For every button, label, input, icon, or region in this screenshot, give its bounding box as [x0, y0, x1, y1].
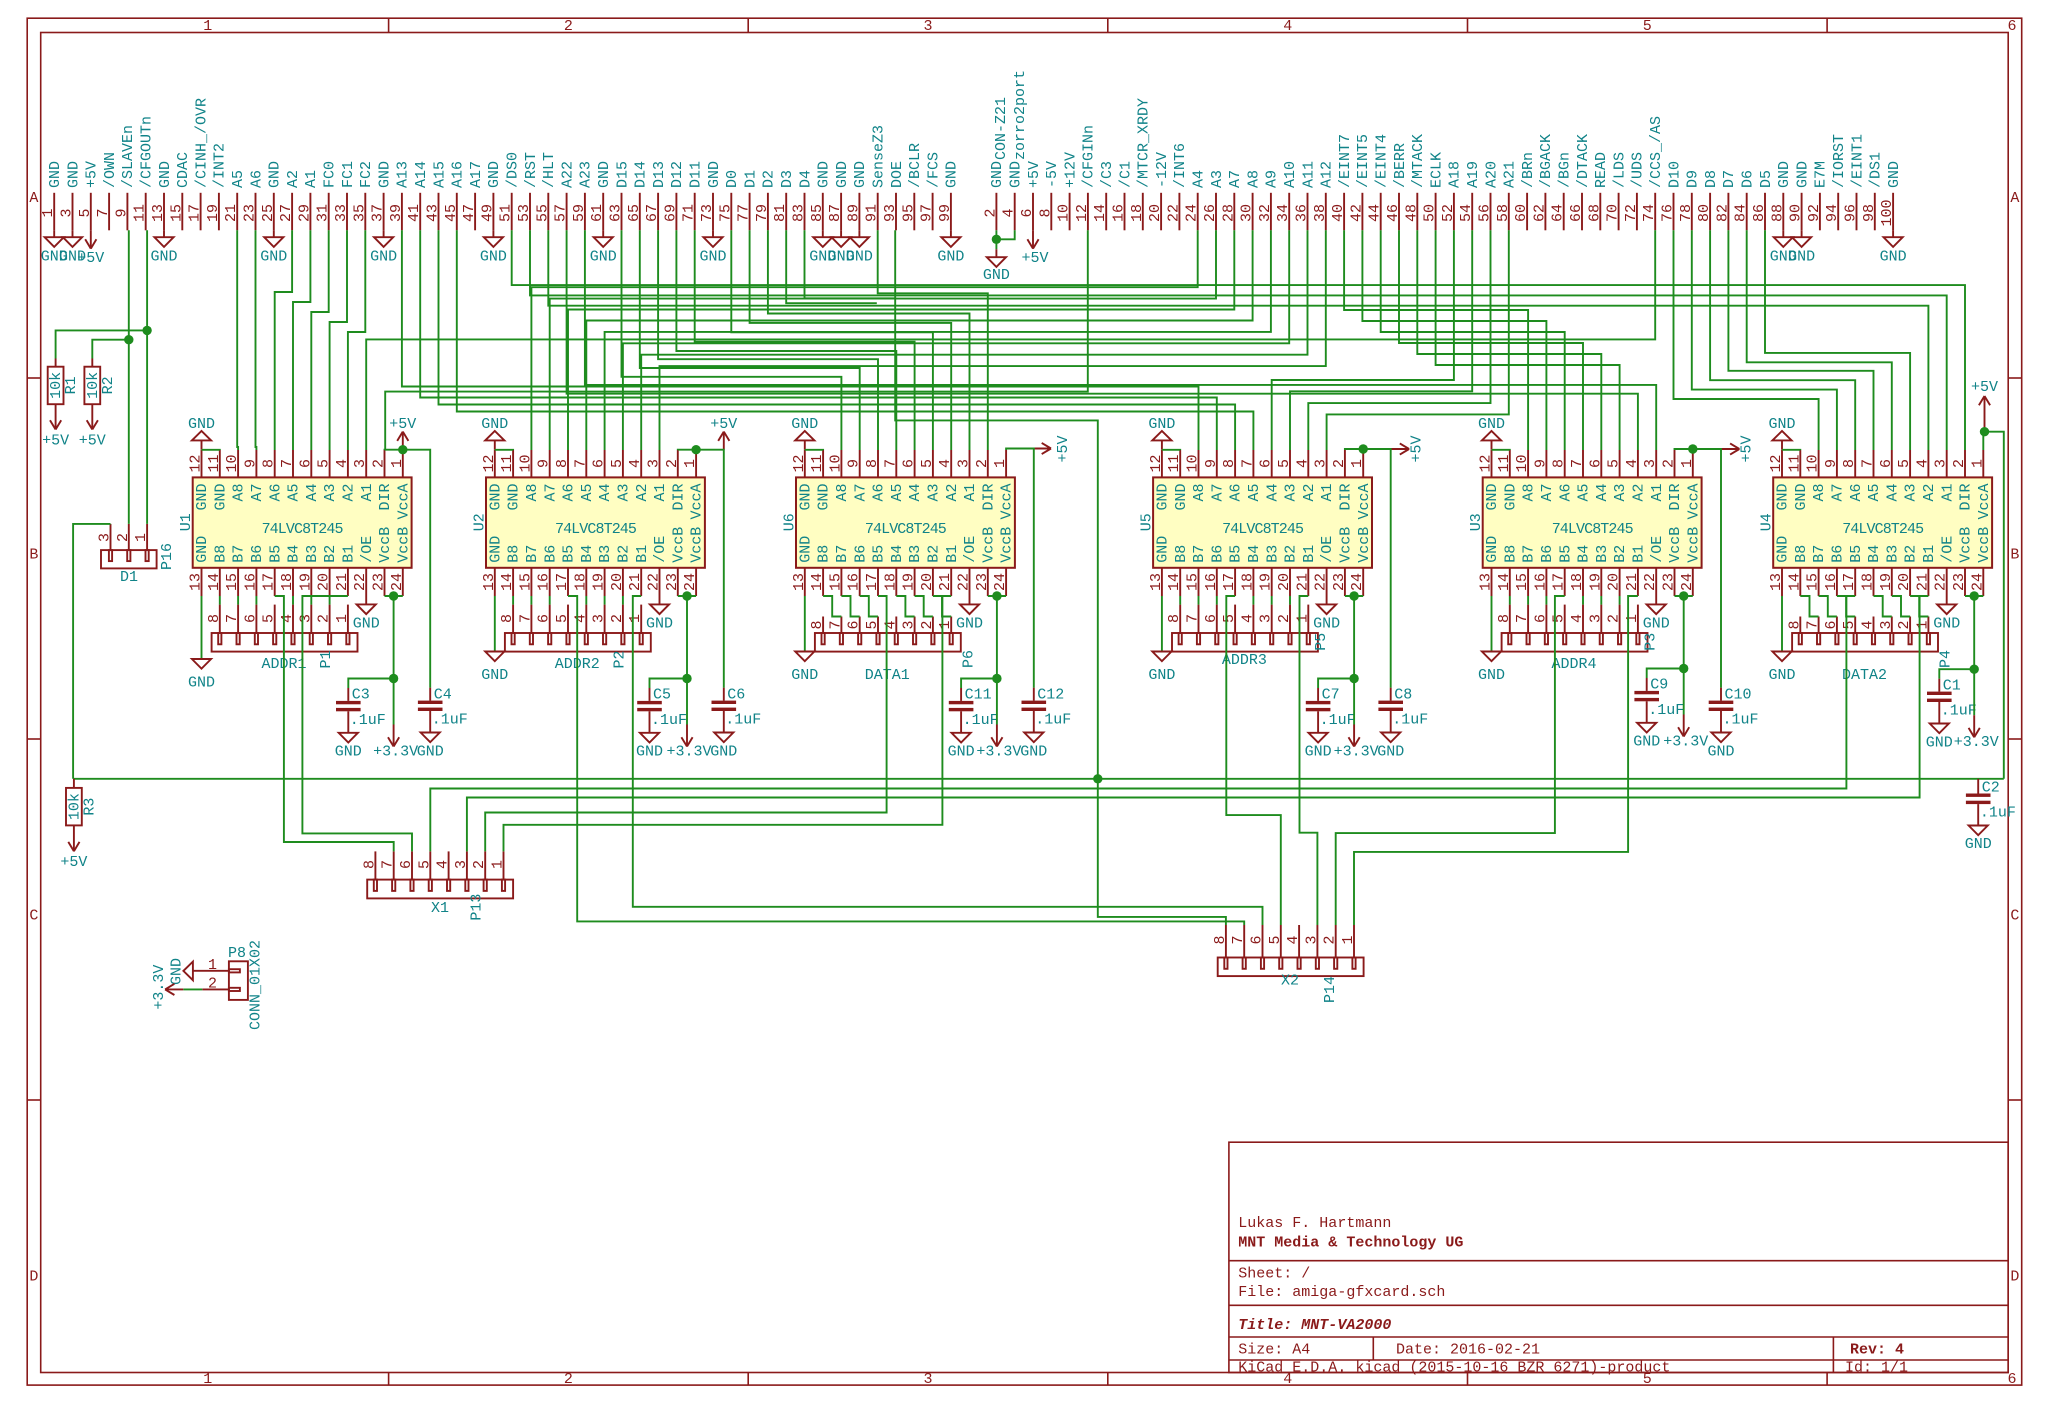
svg-text:GND: GND: [948, 744, 975, 761]
svg-text:23: 23: [1331, 573, 1348, 591]
svg-text:R3: R3: [81, 798, 98, 816]
svg-text:B: B: [29, 547, 38, 564]
svg-text:A5: A5: [286, 484, 303, 502]
svg-text:+5V: +5V: [1408, 435, 1425, 462]
svg-text:B8: B8: [1793, 545, 1810, 563]
svg-text:10: 10: [827, 454, 844, 472]
wire A9 pin32 to U2: [605, 230, 1271, 450]
wire D0 pin75 to U6: [731, 230, 933, 450]
IC U2 bottom pins 13-24 with numbers and names: [481, 527, 706, 596]
svg-text:23: 23: [664, 573, 681, 591]
svg-text:+5V: +5V: [1021, 250, 1048, 267]
svg-text:GND: GND: [188, 416, 215, 433]
svg-text:VccB: VccB: [1958, 527, 1975, 563]
svg-text:15: 15: [1805, 573, 1822, 591]
svg-text:A15: A15: [431, 161, 448, 188]
power +5V at U2: [710, 416, 737, 450]
IC U3 top pins 12-1 with numbers and names: [1478, 450, 1703, 520]
junction R1 net: [142, 326, 151, 335]
svg-text:11: 11: [206, 454, 223, 472]
svg-text:16: 16: [242, 573, 259, 591]
svg-text:42: 42: [1348, 204, 1365, 222]
svg-text:24: 24: [1969, 573, 1986, 591]
svg-text:D3: D3: [779, 170, 796, 188]
svg-text:GND: GND: [1965, 836, 1992, 853]
wire SenseZ3 pin91 to U6 DIR: [878, 230, 988, 450]
svg-text:A7: A7: [1209, 484, 1226, 502]
wire A21 pin58 to U5: [1327, 230, 1509, 450]
svg-text:23: 23: [371, 573, 388, 591]
svg-text:10: 10: [224, 454, 241, 472]
svg-text:A8: A8: [1521, 484, 1538, 502]
svg-text:24: 24: [992, 573, 1009, 591]
wire U5 VccB pins 23-24: [1345, 596, 1363, 679]
svg-text:P1: P1: [318, 650, 335, 668]
wire U6 pin12-pin11 GND: [805, 449, 823, 451]
svg-text:5: 5: [919, 459, 936, 468]
svg-text:74LVC8T245: 74LVC8T245: [1552, 521, 1634, 538]
svg-text:GND: GND: [1173, 484, 1190, 511]
svg-text:File: amiga-gfxcard.sch: File: amiga-gfxcard.sch: [1238, 1284, 1445, 1301]
svg-text:99: 99: [937, 204, 954, 222]
svg-text:B1: B1: [634, 545, 651, 563]
svg-text:/BERR: /BERR: [1392, 143, 1409, 188]
svg-text:3: 3: [1587, 614, 1604, 623]
svg-text:20: 20: [1606, 573, 1623, 591]
svg-text:FC1: FC1: [340, 161, 357, 188]
ground symbol at U5 pins 11-12: [1148, 416, 1175, 450]
svg-text:90: 90: [1788, 204, 1805, 222]
svg-text:+5V: +5V: [60, 854, 87, 871]
svg-text:6: 6: [846, 620, 863, 629]
svg-text:A23: A23: [578, 161, 595, 188]
svg-text:3: 3: [591, 614, 608, 623]
svg-text:C3: C3: [352, 687, 370, 704]
svg-text:B5: B5: [267, 545, 284, 563]
wire U6 B5 to X1 pin2: [485, 596, 886, 851]
svg-text:GND: GND: [1926, 734, 1953, 751]
svg-text:D5: D5: [1758, 170, 1775, 188]
svg-text:READ: READ: [1593, 152, 1610, 188]
wire FC1 pin33 to U1 A3: [330, 230, 347, 450]
svg-text:A4: A4: [1264, 484, 1281, 502]
wire D11 pin71 to U6: [695, 230, 915, 450]
IC U4 top pins 12-1 with numbers and names: [1768, 450, 1993, 520]
svg-text:GND: GND: [1768, 667, 1795, 684]
svg-text:3: 3: [1878, 620, 1895, 629]
IC U6 top pins 12-1 with numbers and names: [791, 450, 1016, 520]
svg-text:D14: D14: [633, 161, 650, 188]
svg-text:+5V: +5V: [79, 433, 106, 450]
svg-text:28: 28: [1220, 204, 1237, 222]
svg-text:8: 8: [1037, 208, 1054, 217]
svg-text:GND: GND: [1377, 743, 1404, 760]
svg-text:72: 72: [1623, 204, 1640, 222]
svg-text:44: 44: [1367, 204, 1384, 222]
svg-text:GND: GND: [1148, 416, 1175, 433]
svg-text:1: 1: [208, 957, 217, 974]
junction U3 +5V: [1688, 444, 1697, 453]
svg-text:B1: B1: [341, 545, 358, 563]
svg-text:DIR: DIR: [670, 484, 687, 511]
wire U1 VccA +5V: [385, 450, 431, 688]
svg-text:7: 7: [1514, 614, 1531, 623]
wire /MTACK pin48 to U3: [1417, 230, 1601, 450]
svg-text:4: 4: [334, 459, 351, 468]
svg-text:VccB: VccB: [1667, 527, 1684, 563]
junction U4 VccB: [1970, 591, 1979, 600]
svg-text:A10: A10: [1282, 161, 1299, 188]
svg-text:.1uF: .1uF: [1392, 712, 1428, 729]
svg-text:Date: 2016-02-21: Date: 2016-02-21: [1396, 1342, 1540, 1359]
svg-text:5: 5: [261, 614, 278, 623]
wire U6 pin13 GND: [804, 596, 806, 652]
svg-text:6: 6: [1823, 620, 1840, 629]
svg-text:B6: B6: [249, 545, 266, 563]
svg-text:GND: GND: [646, 616, 673, 633]
svg-text:GND: GND: [1886, 161, 1903, 188]
wire ECLK pin50 to U3: [1436, 230, 1620, 450]
svg-text:40: 40: [1330, 204, 1347, 222]
wire R2 to SLAVEn net: [92, 340, 129, 359]
ground symbol at U1 pins 11-12: [188, 416, 215, 450]
svg-text:16: 16: [846, 573, 863, 591]
connector X2 P14 body: [1218, 958, 1364, 977]
svg-text:B4: B4: [1246, 545, 1263, 563]
svg-text:3: 3: [59, 208, 76, 217]
svg-text:17: 17: [1551, 573, 1568, 591]
wire U2 pin13 GND: [494, 596, 496, 652]
svg-text:B7: B7: [1811, 545, 1828, 563]
wire U2 B1 to X2 pin6: [633, 596, 1263, 925]
svg-text:+5V: +5V: [1055, 435, 1072, 462]
connector P4 DATA2 body: [1792, 633, 1938, 652]
svg-text:B2: B2: [322, 545, 339, 563]
svg-text:A1: A1: [1649, 484, 1666, 502]
svg-text:4: 4: [882, 620, 899, 629]
svg-text:1: 1: [40, 208, 57, 217]
svg-text:20: 20: [316, 573, 333, 591]
svg-text:.1uF: .1uF: [963, 712, 999, 729]
svg-text:5: 5: [416, 860, 433, 869]
svg-text:14: 14: [1496, 573, 1513, 591]
svg-text:57: 57: [553, 204, 570, 222]
IC U5 bottom pins 13-24 with numbers and names: [1148, 527, 1373, 596]
svg-text:B1: B1: [1921, 545, 1938, 563]
svg-text:C8: C8: [1394, 686, 1412, 703]
svg-text:A7: A7: [1227, 170, 1244, 188]
wire U2 VccB to cap: [650, 679, 688, 689]
svg-text:DIR: DIR: [1667, 484, 1684, 511]
svg-text:+3.3V: +3.3V: [666, 744, 711, 761]
svg-text:2: 2: [1331, 459, 1348, 468]
svg-text:/UDS: /UDS: [1630, 152, 1647, 188]
svg-text:24: 24: [1679, 573, 1696, 591]
svg-text:CDAC: CDAC: [175, 152, 192, 188]
connector P3 pins 8-1: [1496, 605, 1641, 633]
svg-text:U5: U5: [1139, 513, 1156, 531]
junction U1 VccB: [389, 591, 398, 600]
wire DOE pin93 to X2 pin8 net: [895, 230, 1098, 779]
svg-text:17: 17: [1841, 573, 1858, 591]
svg-text:22: 22: [352, 573, 369, 591]
svg-text:B3: B3: [1264, 545, 1281, 563]
svg-text:6: 6: [1249, 935, 1266, 944]
ground symbol at U2 pin22 /OE: [646, 596, 673, 633]
svg-text:A4: A4: [907, 484, 924, 502]
svg-text:17: 17: [1221, 573, 1238, 591]
svg-text:93: 93: [882, 204, 899, 222]
svg-text:GND: GND: [1478, 416, 1505, 433]
connector P5 pins 8-1: [1166, 605, 1311, 633]
wire D7 pin82 to U4: [1728, 230, 1873, 450]
svg-text:8: 8: [1841, 459, 1858, 468]
wire A16 pin45 to U5: [457, 230, 1254, 450]
svg-text:5: 5: [1276, 459, 1293, 468]
svg-text:/BGn: /BGn: [1557, 152, 1574, 188]
svg-text:DIR: DIR: [1958, 484, 1975, 511]
svg-text:94: 94: [1824, 204, 1841, 222]
svg-text:Lukas F. Hartmann: Lukas F. Hartmann: [1238, 1215, 1391, 1232]
svg-text:E7M: E7M: [1813, 161, 1830, 188]
svg-text:19: 19: [1878, 573, 1895, 591]
svg-text:D7: D7: [1721, 170, 1738, 188]
wire P8 pin2: [183, 988, 202, 990]
svg-text:8: 8: [554, 459, 571, 468]
ground symbol below U3 pin13: [1478, 652, 1505, 685]
wire D1 pin77 to U6: [750, 230, 952, 450]
ground symbol at U3 pins 11-12: [1478, 416, 1505, 450]
svg-text:VccA: VccA: [689, 484, 706, 520]
svg-text:B4: B4: [579, 545, 596, 563]
svg-text:B2: B2: [1903, 545, 1920, 563]
svg-text:C7: C7: [1322, 687, 1340, 704]
svg-text:97: 97: [919, 204, 936, 222]
IC U2 top pins 12-1 with numbers and names: [481, 450, 706, 520]
svg-text:A3: A3: [616, 484, 633, 502]
wire U4 pin13 GND: [1781, 596, 1783, 652]
power +5V under pin 6: [1021, 230, 1048, 267]
svg-text:GND: GND: [1643, 616, 1670, 633]
svg-text:U4: U4: [1759, 513, 1776, 531]
svg-text:4: 4: [627, 459, 644, 468]
connector P3 ADDR4 body: [1502, 633, 1648, 652]
svg-text:ADDR3: ADDR3: [1222, 652, 1267, 669]
svg-text:8: 8: [1786, 620, 1803, 629]
svg-text:/MTACK: /MTACK: [1410, 134, 1427, 188]
svg-text:74LVC8T245: 74LVC8T245: [865, 521, 947, 538]
svg-text:P4: P4: [1938, 650, 1955, 668]
svg-text:.1uF: .1uF: [651, 712, 687, 729]
svg-text:18: 18: [572, 573, 589, 591]
svg-text:.1uF: .1uF: [432, 712, 468, 729]
svg-text:+5V: +5V: [389, 416, 416, 433]
svg-text:GND: GND: [1775, 536, 1792, 563]
svg-text:A11: A11: [1300, 161, 1317, 188]
svg-text:P6: P6: [960, 650, 977, 668]
svg-text:3: 3: [1303, 935, 1320, 944]
connector P1 pins 8-1: [206, 605, 351, 633]
svg-text:22: 22: [1165, 204, 1182, 222]
capacitor C2 .1uF: [1965, 779, 2016, 853]
svg-text:81: 81: [772, 204, 789, 222]
svg-text:B5: B5: [1848, 545, 1865, 563]
svg-text:1: 1: [1624, 614, 1641, 623]
wire U5 pin12-pin11 GND: [1162, 449, 1180, 451]
wire U4 VccB pins 23-24: [1965, 596, 1983, 669]
svg-text:74LVC8T245: 74LVC8T245: [1222, 521, 1304, 538]
wire U2 pin12-pin11 GND: [495, 449, 513, 451]
svg-text:+3.3V: +3.3V: [1663, 734, 1708, 751]
svg-text:11: 11: [499, 454, 516, 472]
svg-text:B7: B7: [231, 545, 248, 563]
power +3.3V at U2 VccB: [666, 679, 711, 761]
svg-text:21: 21: [1624, 573, 1641, 591]
svg-text:1: 1: [682, 459, 699, 468]
svg-text:2: 2: [316, 614, 333, 623]
svg-text:22: 22: [956, 573, 973, 591]
svg-text:B4: B4: [1576, 545, 1593, 563]
power +3.3V at U5 VccB: [1334, 679, 1379, 761]
svg-text:5: 5: [1551, 614, 1568, 623]
svg-text:A6: A6: [561, 484, 578, 502]
capacitor C9 .1uF: [1633, 677, 1684, 751]
svg-text:48: 48: [1403, 204, 1420, 222]
connector P16 D1 body: [101, 550, 157, 568]
power +5V at U3 pins 1-2: [1721, 435, 1756, 462]
svg-text:4: 4: [435, 860, 452, 869]
svg-text:B2: B2: [926, 545, 943, 563]
svg-text:3: 3: [1258, 614, 1275, 623]
svg-text:A4: A4: [1191, 170, 1208, 188]
svg-text:74LVC8T245: 74LVC8T245: [262, 521, 344, 538]
svg-text:B7: B7: [834, 545, 851, 563]
svg-text:VccA: VccA: [1685, 484, 1702, 520]
svg-text:11: 11: [132, 204, 149, 222]
svg-text:-5V: -5V: [1044, 161, 1061, 188]
svg-text:A2: A2: [1921, 484, 1938, 502]
wire A12 pin38 to U2: [660, 230, 1326, 450]
wire U4 pin12-pin11 GND: [1782, 449, 1800, 451]
svg-text:/MTCR_XRDY: /MTCR_XRDY: [1136, 98, 1153, 188]
svg-text:7: 7: [1185, 614, 1202, 623]
svg-text:78: 78: [1678, 204, 1695, 222]
svg-text:/OE: /OE: [359, 536, 376, 563]
svg-text:7: 7: [279, 459, 296, 468]
svg-text:13: 13: [188, 573, 205, 591]
wire A14 pin41 to U5: [420, 230, 1217, 450]
power +5V below R2: [79, 420, 106, 449]
svg-text:6: 6: [1587, 459, 1604, 468]
svg-text:/OE: /OE: [962, 536, 979, 563]
svg-text:A2: A2: [285, 170, 302, 188]
svg-text:B1: B1: [1301, 545, 1318, 563]
svg-text:GND: GND: [590, 249, 617, 266]
ground symbol at U3 pin22 /OE: [1643, 596, 1670, 633]
svg-text:B5: B5: [871, 545, 888, 563]
svg-text:D10: D10: [1666, 161, 1683, 188]
svg-text:2: 2: [1606, 614, 1623, 623]
svg-text:B8: B8: [1502, 545, 1519, 563]
svg-text:62: 62: [1531, 204, 1548, 222]
svg-text:B3: B3: [597, 545, 614, 563]
svg-text:zorro2port: zorro2port: [1012, 70, 1029, 160]
svg-text:36: 36: [1294, 204, 1311, 222]
junction U3 VccB: [1679, 591, 1688, 600]
junction U2 +5V: [691, 445, 700, 454]
connector P1 ADDR1 body: [212, 633, 358, 652]
capacitor C1 .1uF: [1926, 677, 1977, 751]
svg-text:6: 6: [297, 459, 314, 468]
svg-text:6: 6: [1878, 459, 1895, 468]
svg-text:9: 9: [242, 459, 259, 468]
svg-text:19: 19: [1587, 573, 1604, 591]
wire D5 pin86 to U4: [1765, 230, 1910, 450]
wire U5 VccB to cap: [1318, 679, 1354, 689]
svg-text:GND: GND: [706, 161, 723, 188]
svg-text:3: 3: [923, 18, 932, 35]
svg-text:B1: B1: [1631, 545, 1648, 563]
svg-text:1: 1: [389, 459, 406, 468]
svg-text:GND: GND: [1794, 161, 1811, 188]
connector P2 ADDR2 body: [505, 633, 651, 652]
ground symbol at U1 pin22 /OE: [353, 596, 380, 633]
wire U2 VccB pins 23-24: [678, 596, 696, 679]
IC U1 top pins 12-1 with numbers and names: [188, 450, 413, 520]
svg-text:4: 4: [279, 614, 296, 623]
svg-text:A1: A1: [303, 170, 320, 188]
wire /EINT4 pin44 to U3: [1381, 230, 1565, 450]
svg-text:GND: GND: [267, 161, 284, 188]
IC U5 74LVC8T245 body: [1153, 477, 1372, 567]
svg-text:6: 6: [242, 614, 259, 623]
resistor R1 10k: [48, 359, 80, 422]
svg-text:1: 1: [1294, 614, 1311, 623]
svg-text:GND: GND: [699, 249, 726, 266]
svg-text:P13: P13: [469, 894, 486, 921]
svg-text:U2: U2: [471, 513, 488, 531]
svg-text:A4: A4: [304, 484, 321, 502]
svg-text:31: 31: [315, 204, 332, 222]
svg-text:/BGACK: /BGACK: [1538, 134, 1555, 188]
svg-text:3: 3: [1933, 459, 1950, 468]
svg-text:17: 17: [554, 573, 571, 591]
svg-text:6: 6: [591, 459, 608, 468]
svg-text:GND: GND: [65, 161, 82, 188]
svg-text:8: 8: [206, 614, 223, 623]
svg-text:GND: GND: [417, 743, 444, 760]
svg-text:P5: P5: [1313, 633, 1330, 651]
svg-text:19: 19: [205, 204, 222, 222]
wire D15 pin63 to U6: [622, 230, 842, 450]
svg-text:4: 4: [1239, 614, 1256, 623]
svg-text:26: 26: [1202, 204, 1219, 222]
svg-text:GND: GND: [1880, 249, 1907, 266]
svg-text:Title: MNT-VA2000: Title: MNT-VA2000: [1238, 1317, 1391, 1334]
svg-text:VccA: VccA: [999, 484, 1016, 520]
svg-text:B5: B5: [561, 545, 578, 563]
capacitor C11 .1uF: [948, 687, 999, 761]
wire P16 pin3 to +5V net: [73, 524, 110, 779]
svg-text:A21: A21: [1502, 161, 1519, 188]
wire A19 pin54 to U5: [1290, 230, 1472, 450]
svg-text:B4: B4: [1866, 545, 1883, 563]
svg-text:11: 11: [1786, 454, 1803, 472]
title block: [1229, 1142, 2008, 1372]
junction U3 VccB cap node: [1679, 664, 1688, 673]
svg-text:/CCS_/AS: /CCS_/AS: [1648, 116, 1665, 188]
wire A23 pin59 to U3 A1: [585, 230, 1656, 450]
